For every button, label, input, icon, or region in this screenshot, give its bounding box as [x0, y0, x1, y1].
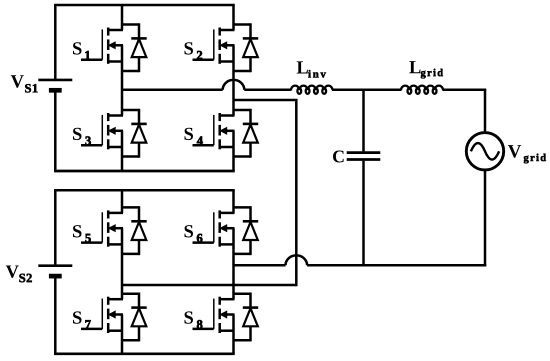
body diode of S7 — [122, 293, 147, 342]
wire: bridge1 left rail upper — [54, 5, 57, 80]
transistor S2 (MOSFET) — [193, 28, 235, 64]
H-bridge 2 frame — [54, 190, 235, 353]
transistor S6 (MOSFET) — [193, 210, 235, 246]
AC source V_grid — [466, 133, 503, 170]
body diode of S1 — [122, 23, 147, 72]
label S2 — [185, 42, 203, 59]
label V_grid — [508, 145, 546, 163]
wire: V_grid bottom down — [484, 170, 487, 266]
wire: bridge2 left rail upper — [54, 190, 57, 265]
transistor S1 (MOSFET) — [81, 28, 123, 64]
bridge2 right leg — [232, 190, 235, 353]
label S6 — [185, 225, 203, 242]
H-bridge 1 frame — [54, 5, 235, 171]
body diode of S4 — [234, 109, 259, 158]
wire: C bottom down — [362, 161, 365, 266]
wire: L_grid to corner — [443, 88, 487, 91]
label C — [333, 151, 344, 163]
node A1: bridge1 output wire with crossover hop — [122, 80, 292, 90]
body diode of S8 — [234, 293, 259, 342]
transistor S7 (MOSFET) — [81, 297, 123, 333]
wire: corner down to V_grid top — [484, 90, 487, 134]
label V_S1 — [11, 75, 38, 92]
label S4 — [185, 128, 203, 145]
label S5 — [73, 225, 91, 242]
wire: bridge2 top rail — [54, 189, 235, 192]
wire: node to C top plate — [362, 90, 365, 152]
label V_S2 — [6, 266, 32, 283]
battery V_S2 (DC source) — [38, 266, 72, 276]
wire: bridge2 bottom rail — [54, 352, 235, 355]
bridge2 left leg — [121, 190, 124, 353]
transistor S8 (MOSFET) — [193, 297, 235, 333]
transistor S3 (MOSFET) — [81, 113, 123, 149]
inductor L_grid — [401, 86, 443, 94]
wire: bridge1 bottom rail — [54, 170, 235, 173]
wire: bridge1 top rail — [54, 4, 235, 7]
C top plate — [347, 151, 381, 154]
body diode of S3 — [122, 109, 147, 158]
bridge1 right leg — [232, 5, 235, 171]
body diode of S5 — [122, 206, 147, 255]
wire: L_inv to L_grid — [332, 88, 402, 91]
wire: B1 to A2 cascade link — [122, 100, 298, 286]
inductor L_inv — [291, 86, 333, 94]
body diode of S2 — [234, 23, 259, 72]
bridge1 left leg — [121, 5, 124, 171]
C bottom plate — [347, 158, 381, 161]
capacitor C branch — [347, 90, 381, 266]
label L_grid — [409, 61, 443, 78]
label L_inv — [297, 61, 326, 77]
label S7 — [73, 311, 91, 328]
battery V_S1 (DC source) — [38, 80, 72, 90]
wire: bridge1 left rail lower — [54, 90, 57, 171]
label S1 — [73, 42, 90, 59]
body diode of S6 — [234, 206, 259, 255]
transistor S4 (MOSFET) — [193, 113, 235, 149]
transistor S5 (MOSFET) — [81, 210, 123, 246]
label S3 — [73, 128, 91, 145]
node B2: bridge2 output wire with crossover hop — [234, 255, 487, 265]
wire: bridge2 left rail lower — [54, 276, 57, 354]
label S8 — [185, 311, 203, 328]
